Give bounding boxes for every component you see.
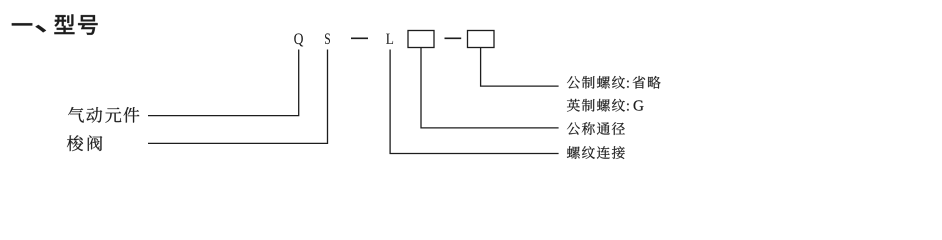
leader from L to 螺纹连接 xyxy=(390,50,558,154)
leader from box 1 to 公称通径 xyxy=(421,48,559,128)
label 梭阀 xyxy=(67,135,102,151)
leader from box 2 to 公制螺纹 xyxy=(481,48,559,87)
label 螺纹连接 xyxy=(567,146,625,159)
leader from S to 梭阀 xyxy=(148,50,328,144)
label 气动元件 xyxy=(68,107,139,123)
dash between boxes xyxy=(445,37,462,39)
model letter S xyxy=(325,33,330,44)
label 公称通径 xyxy=(567,122,625,135)
heading 一、型号 xyxy=(12,14,98,34)
model box 1 (nominal diameter) xyxy=(408,31,434,48)
label 公制螺纹:省略 xyxy=(567,76,661,89)
model letter Q xyxy=(294,33,303,46)
label 英制螺纹:G xyxy=(567,99,644,112)
dash between S and L xyxy=(351,37,368,39)
model box 2 (thread type) xyxy=(468,31,495,48)
model letter L xyxy=(386,34,393,44)
leader from Q to 气动元件 xyxy=(148,50,299,116)
